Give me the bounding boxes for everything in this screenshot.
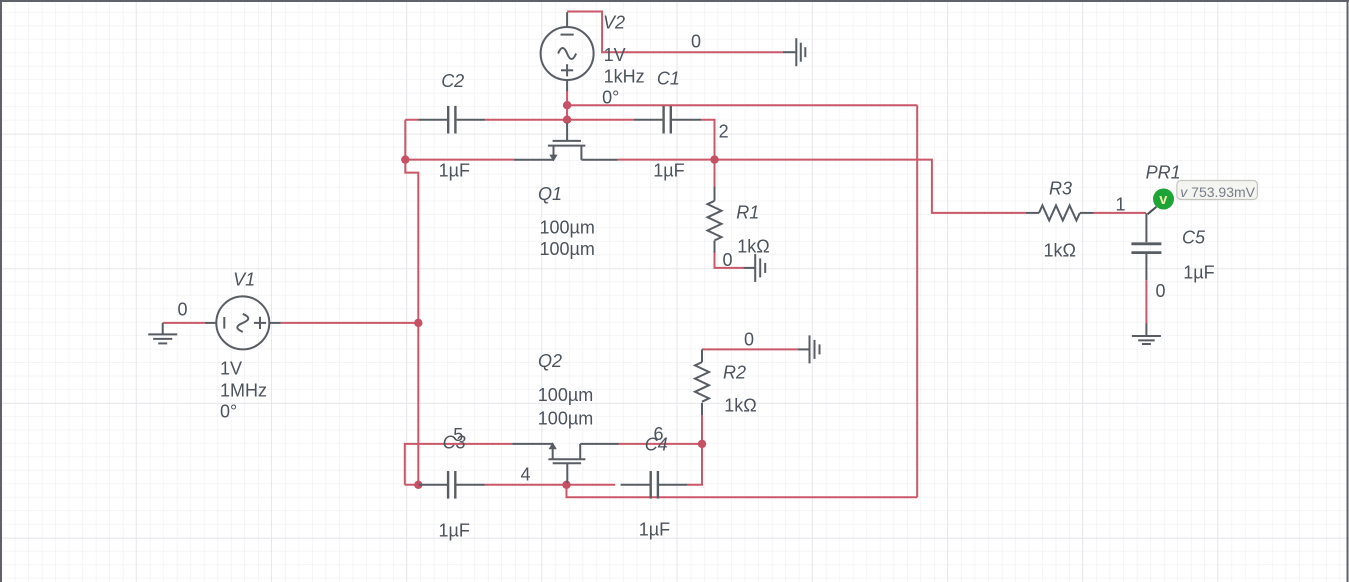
svg-text:4: 4 (521, 465, 531, 485)
svg-text:R2: R2 (723, 363, 746, 383)
svg-text:0: 0 (178, 300, 188, 320)
svg-text:v 753.93mV: v 753.93mV (1180, 184, 1255, 200)
capacitor C4 (621, 471, 688, 499)
ground (node 0, top right) (783, 38, 806, 66)
svg-text:R3: R3 (1049, 179, 1072, 199)
svg-text:100µm: 100µm (538, 385, 593, 405)
wire right feedback vertical x=917 (916, 105, 918, 497)
svg-text:0°: 0° (602, 88, 619, 108)
svg-text:1V: 1V (604, 45, 626, 65)
wire Q2 drain to node 6 junction (619, 443, 703, 445)
probe tooltip v 753.93mV (1177, 181, 1258, 200)
svg-text:0°: 0° (220, 402, 237, 422)
capacitor C5 (1131, 213, 1161, 280)
junction node at C2 corner / Q1 source (401, 155, 409, 163)
junction node at Q2 gate (562, 481, 570, 489)
wire R1 bottom to ground (715, 253, 744, 268)
probe PR1 (1148, 189, 1174, 215)
ground (node 0, under R1) (743, 254, 765, 282)
junction node 2 at Q1 drain / R1 (710, 155, 718, 163)
svg-text:0: 0 (723, 250, 733, 270)
svg-text:1kΩ: 1kΩ (1044, 241, 1076, 261)
svg-text:V2: V2 (603, 13, 625, 33)
capacitor C1 (634, 106, 701, 134)
wire R2 top to ground (702, 348, 798, 350)
resistor R1 (708, 187, 722, 253)
wire V1 plus to left bus (281, 322, 419, 324)
svg-text:0: 0 (691, 32, 701, 52)
svg-text:Q2: Q2 (538, 351, 562, 371)
svg-text:1µF: 1µF (639, 520, 670, 540)
svg-text:100µm: 100µm (540, 217, 595, 237)
svg-text:C3: C3 (443, 433, 466, 453)
transistor Q2 (MOSFET, mirrored) (512, 444, 618, 483)
wire Q2 top row y=443.9 (405, 444, 512, 485)
AC source V1 (205, 296, 281, 349)
svg-text:1V: 1V (220, 359, 242, 379)
wire bottom feedback horizontal y=497 (567, 485, 918, 498)
svg-text:1µF: 1µF (1183, 263, 1214, 283)
svg-text:0: 0 (744, 330, 754, 350)
svg-text:1: 1 (1116, 195, 1126, 215)
svg-text:PR1: PR1 (1146, 163, 1181, 183)
svg-text:V1: V1 (233, 270, 255, 290)
transistor Q1 (MOSFET) (514, 123, 618, 160)
capacitor C2 (419, 106, 486, 134)
svg-text:C4: C4 (645, 435, 668, 455)
wire R3 to probe node 1 (1094, 212, 1147, 214)
wire V2 bottom to gate bus (566, 91, 568, 120)
junction node 6 at Q2 drain / R2 (698, 440, 706, 448)
wire node 2 to R3 (715, 160, 1027, 213)
wire Q1 source row y=159.6 (405, 159, 514, 161)
wire R1 top (714, 160, 716, 187)
wire R2 bottom to node 6 (701, 415, 703, 444)
wire C1 row y=120 to node 2 (567, 120, 714, 160)
svg-text:C5: C5 (1182, 228, 1206, 248)
AC source V2 (541, 12, 594, 91)
wire C2 row y=120 (405, 119, 567, 121)
wire C5 lower segment (1145, 280, 1147, 323)
wire V2 top loop to node 0 (567, 12, 783, 53)
wire Q1 drain to node 2 junction (618, 159, 715, 161)
svg-text:R1: R1 (736, 203, 759, 223)
wire V1 minus to ground (163, 322, 205, 324)
wire bottom row y=484.8 through C3 C4 (405, 444, 702, 485)
resistor R2 (695, 349, 709, 415)
junction node at V1 plus (414, 319, 422, 327)
svg-text:C2: C2 (441, 71, 464, 91)
svg-text:100µm: 100µm (540, 239, 595, 259)
wire top feedback horizontal y=105 (567, 104, 917, 106)
svg-text:0: 0 (1156, 281, 1166, 301)
svg-text:1kHz: 1kHz (604, 67, 645, 87)
ground (node 0, under C5) (1132, 324, 1161, 345)
svg-text:1MHz: 1MHz (220, 381, 267, 401)
svg-text:100µm: 100µm (538, 409, 593, 429)
svg-text:2: 2 (719, 122, 729, 142)
ground (node 0, left of V1) (148, 323, 177, 344)
svg-text:C1: C1 (657, 69, 680, 89)
svg-text:1kΩ: 1kΩ (737, 237, 769, 257)
svg-text:1kΩ: 1kΩ (724, 396, 756, 416)
svg-text:v: v (1159, 192, 1167, 208)
svg-text:1µF: 1µF (439, 521, 470, 541)
svg-text:1µF: 1µF (439, 161, 470, 181)
svg-text:1µF: 1µF (653, 161, 684, 181)
resistor R3 (1026, 205, 1094, 220)
ground (node 0, right of R2) (798, 335, 820, 363)
wire left bus: C2 corner down to V1 and bottom (405, 120, 418, 485)
junction node at V2 plus / feedback (563, 101, 571, 109)
capacitor C3 (419, 471, 485, 499)
junction node at Q1 gate (563, 116, 571, 124)
junction node at left bus bottom (414, 481, 422, 489)
svg-text:Q1: Q1 (538, 184, 562, 204)
